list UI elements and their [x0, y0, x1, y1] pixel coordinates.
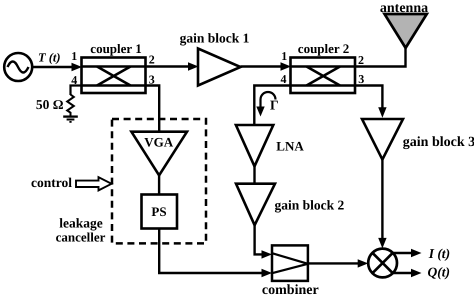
wire coupler 2 pin 2 to antenna [355, 48, 406, 67]
coupler 2 [291, 58, 356, 94]
svg-text:1: 1 [281, 49, 287, 63]
wire gain block 1 to coupler 2 port 1 [241, 62, 292, 70]
svg-text:gain block 3: gain block 3 [403, 135, 474, 150]
wire source to coupler 1 port 1 [31, 63, 82, 71]
ground [63, 117, 78, 122]
wire mixer output Q [393, 269, 422, 277]
mixer [368, 249, 397, 278]
wire coupler 2 pin 3 to gain block 3 [355, 86, 387, 118]
wire gain block 3 to mixer [378, 160, 386, 249]
wire coupler 1 pin 2 to gain block 1 [146, 62, 199, 70]
svg-text:gain block 1: gain block 1 [180, 31, 250, 46]
source oscillator T [4, 53, 32, 81]
wire coupler 2 pin 4 to LNA [254, 86, 290, 125]
wire VGA to PS [158, 175, 160, 195]
wire PS to combiner input 2 [159, 229, 272, 278]
svg-text:2: 2 [149, 53, 155, 67]
gain block 3 [362, 119, 403, 160]
svg-text:canceller: canceller [56, 230, 106, 245]
svg-text:antenna: antenna [380, 1, 428, 16]
antenna [385, 14, 427, 48]
coupler 1 [82, 58, 146, 94]
wire coupler 1 pin 4 to resistor [71, 86, 82, 96]
wire LNA to gain block 2 [253, 166, 255, 183]
svg-text:LNA: LNA [276, 139, 304, 154]
wire gain block 2 to combiner input 1 [255, 225, 272, 258]
control arrow [76, 177, 112, 190]
resistor 50 ohm [67, 95, 74, 116]
svg-text:Q(t): Q(t) [428, 265, 451, 280]
svg-text:PS: PS [151, 204, 166, 219]
gamma reflection arrow [256, 92, 275, 116]
svg-text:control: control [31, 175, 72, 190]
VGA [131, 132, 187, 176]
svg-text:3: 3 [358, 72, 364, 86]
combiner [272, 245, 308, 281]
LNA [236, 125, 273, 166]
svg-text:coupler 1: coupler 1 [90, 41, 141, 56]
svg-text:VGA: VGA [144, 135, 174, 150]
svg-text:leakage: leakage [59, 216, 103, 231]
svg-text:gain block 2: gain block 2 [275, 198, 345, 213]
wire mixer output I [393, 249, 422, 257]
svg-text:I (t): I (t) [428, 246, 450, 261]
svg-text:2: 2 [358, 53, 364, 67]
svg-text:T (t): T (t) [38, 51, 61, 65]
svg-text:4: 4 [281, 72, 287, 86]
wire combiner to mixer [308, 259, 368, 267]
svg-text:50 Ω: 50 Ω [36, 97, 64, 112]
svg-text:Γ: Γ [270, 98, 279, 113]
gain block 2 [236, 184, 275, 226]
svg-text:combiner: combiner [262, 283, 319, 297]
phase shifter PS [142, 195, 178, 229]
svg-text:1: 1 [71, 49, 77, 63]
gain block 1 [198, 49, 241, 86]
wire coupler 1 pin 3 to VGA [146, 86, 160, 131]
leakage canceller dashed box [112, 119, 206, 243]
svg-text:coupler 2: coupler 2 [298, 41, 349, 56]
